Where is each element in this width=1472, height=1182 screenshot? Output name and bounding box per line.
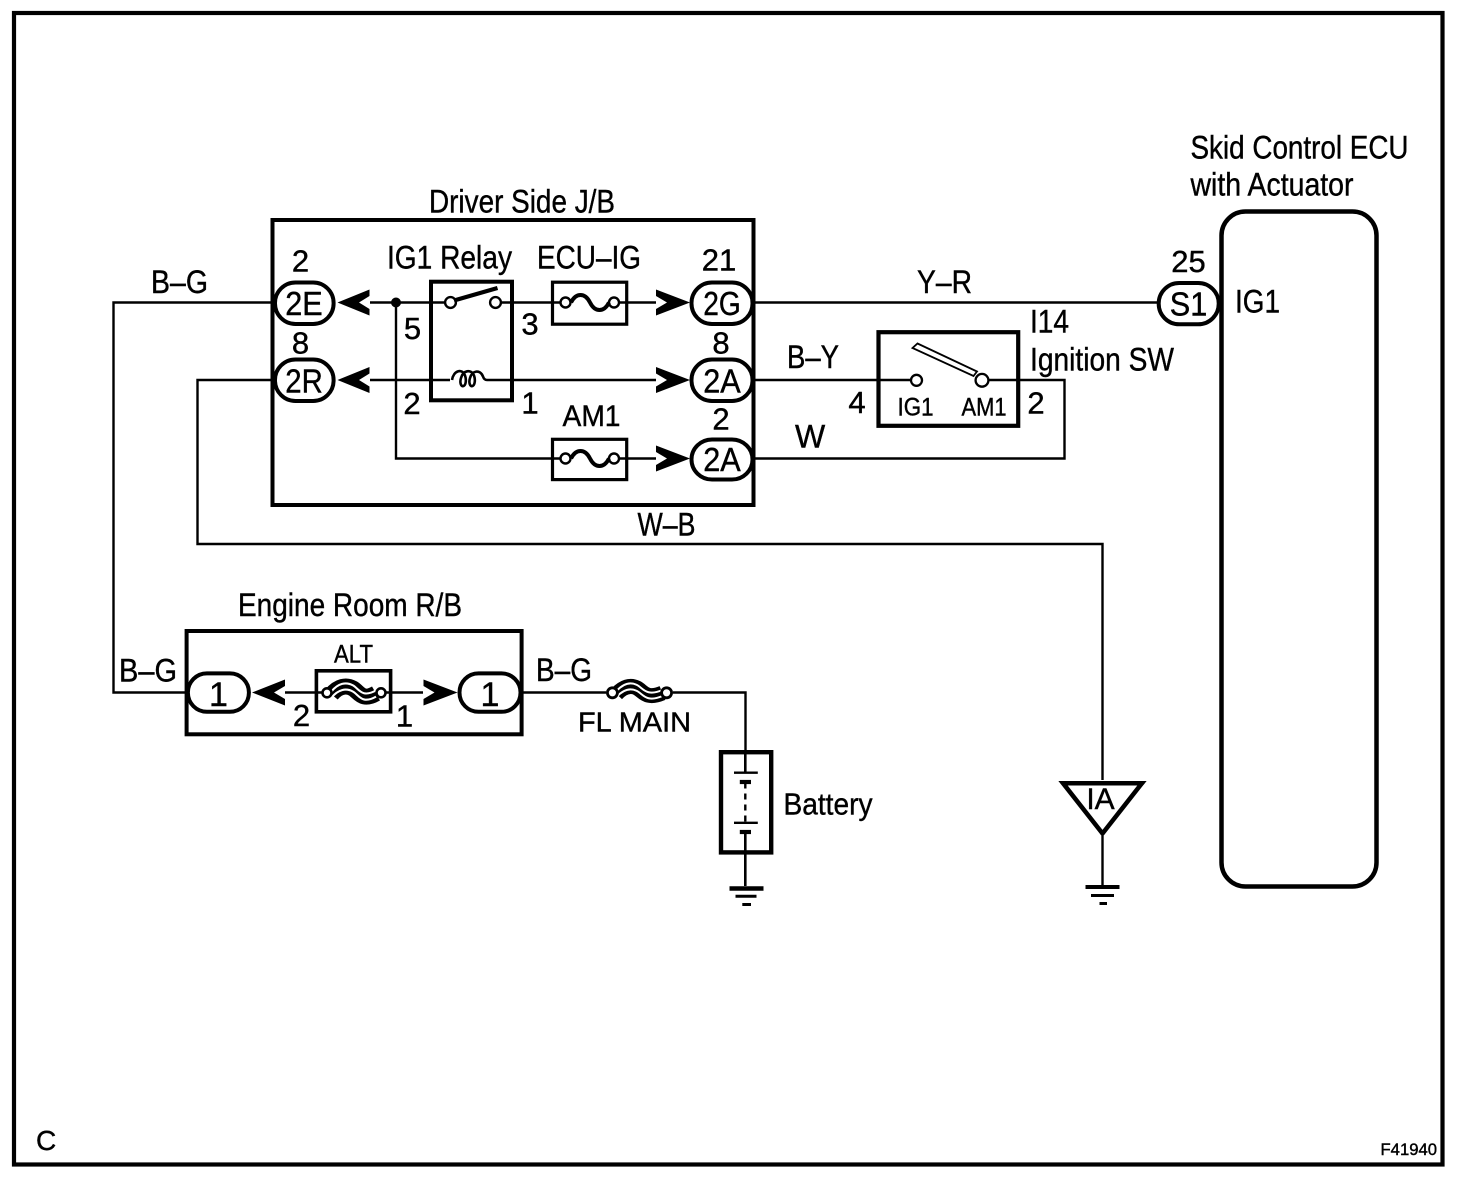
svg-text:1: 1 [481, 676, 500, 714]
svg-text:2A: 2A [703, 363, 741, 400]
svg-text:4: 4 [848, 385, 865, 420]
svg-text:8: 8 [292, 326, 309, 361]
svg-text:Y–R: Y–R [917, 264, 972, 300]
svg-text:IG1: IG1 [898, 394, 934, 422]
svg-text:Driver Side J/B: Driver Side J/B [429, 184, 615, 220]
svg-text:AM1: AM1 [962, 394, 1007, 422]
svg-text:25: 25 [1171, 244, 1205, 279]
svg-text:2: 2 [292, 244, 309, 279]
svg-text:B–G: B–G [536, 652, 592, 688]
svg-text:with Actuator: with Actuator [1190, 167, 1354, 203]
svg-text:W: W [795, 419, 826, 455]
svg-text:ECU–IG: ECU–IG [537, 240, 641, 276]
svg-text:21: 21 [702, 243, 736, 278]
svg-text:2A: 2A [703, 441, 741, 478]
svg-text:IG1 Relay: IG1 Relay [387, 240, 512, 276]
svg-text:I14: I14 [1030, 304, 1069, 340]
svg-text:Skid Control ECU: Skid Control ECU [1191, 130, 1409, 166]
svg-text:AM1: AM1 [563, 400, 621, 433]
svg-text:2E: 2E [285, 285, 323, 322]
svg-text:2: 2 [1027, 386, 1044, 421]
svg-text:B–Y: B–Y [787, 339, 839, 375]
svg-text:B–G: B–G [151, 264, 208, 300]
svg-text:W–B: W–B [638, 507, 696, 543]
svg-text:Engine Room R/B: Engine Room R/B [238, 587, 462, 623]
svg-text:C: C [36, 1125, 56, 1156]
svg-text:2: 2 [712, 402, 729, 437]
svg-text:Ignition SW: Ignition SW [1030, 342, 1175, 378]
svg-text:F41940: F41940 [1381, 1141, 1438, 1159]
svg-text:5: 5 [404, 311, 421, 346]
svg-text:3: 3 [521, 307, 538, 342]
svg-text:1: 1 [521, 386, 538, 421]
svg-text:B–G: B–G [119, 653, 177, 689]
svg-text:1: 1 [396, 699, 413, 734]
svg-text:1: 1 [209, 676, 228, 714]
svg-text:2G: 2G [703, 285, 741, 322]
svg-text:2R: 2R [285, 363, 323, 400]
svg-text:IA: IA [1086, 783, 1114, 816]
svg-text:ALT: ALT [334, 641, 373, 669]
svg-text:FL MAIN: FL MAIN [578, 707, 691, 738]
svg-text:Battery: Battery [784, 787, 873, 822]
svg-text:S1: S1 [1170, 286, 1208, 323]
svg-text:2: 2 [293, 698, 310, 733]
svg-text:IG1: IG1 [1235, 284, 1280, 320]
svg-text:8: 8 [712, 326, 729, 361]
svg-text:2: 2 [403, 386, 420, 421]
